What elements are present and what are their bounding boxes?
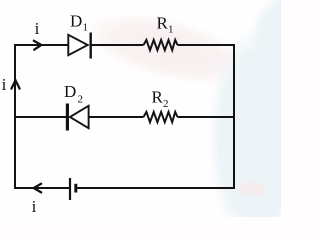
wire right: top-right to bottom-right corner [233,44,235,189]
wire top: R1 to top-right corner [178,44,236,46]
wire top: D1 cathode to R1 [91,44,144,46]
resistor R2 [144,112,178,122]
svg-text:i: i [2,75,7,94]
wire middle: D2 anode to R2 [89,116,144,118]
current arrow left (up) [11,80,19,88]
resistor R1 [144,40,178,50]
svg-text:i: i [35,19,40,38]
svg-text:i: i [32,197,37,216]
wire bottom: battery to bottom-right corner [77,187,235,189]
svg-text:1: 1 [168,24,174,36]
diode D1 [68,33,90,59]
current arrow top (right) [34,41,42,50]
wire middle: left wire to D2 cathode bar [15,116,66,118]
svg-text:D: D [70,12,82,31]
svg-text:2: 2 [163,98,169,110]
svg-text:D: D [64,82,76,101]
battery cell [70,178,76,200]
current arrow bottom (left) [34,184,42,193]
svg-text:2: 2 [78,94,84,106]
wire middle: R2 to right wire [178,116,235,118]
svg-text:R: R [152,88,164,107]
svg-text:R: R [157,14,169,33]
wire top: left corner to D1 anode [15,44,68,46]
diode D2 [67,104,88,131]
svg-text:1: 1 [83,22,89,34]
wire left: top-left to bottom-left corner [14,44,16,189]
wire bottom: left corner to battery [15,187,69,189]
